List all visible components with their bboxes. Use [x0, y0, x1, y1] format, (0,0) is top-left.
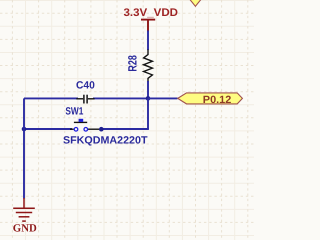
wire: right vertical drop from junction to switch row: [147, 98, 149, 129]
switch SW1 (push button): [70, 119, 99, 131]
ground symbol: [13, 198, 35, 221]
resistor R28: [144, 50, 153, 83]
port P0.12: [178, 93, 243, 106]
svg-text:GND: GND: [13, 223, 37, 235]
svg-text:R28: R28: [125, 55, 139, 72]
wire: junction to port P0.12: [148, 97, 178, 99]
wire: power stem to resistor R28 top: [147, 31, 149, 51]
wire: top horizontal left segment (to capacitor C40): [24, 97, 78, 99]
wire: resistor bottom to junction: [147, 81, 149, 98]
svg-text:SW1: SW1: [65, 106, 83, 118]
wire: switch row right segment: [101, 128, 149, 130]
junction at left wire / switch row: [22, 127, 27, 132]
svg-text:C40: C40: [76, 80, 95, 92]
junction at resistor / top wire: [146, 96, 151, 101]
partial port flag (top edge, cut off): [189, 0, 202, 6]
svg-text:P0.12: P0.12: [203, 94, 232, 106]
svg-text:3.3V_VDD: 3.3V_VDD: [124, 7, 179, 19]
wire: switch row left segment: [24, 128, 72, 130]
svg-text:SFKQDMA2220T: SFKQDMA2220T: [63, 134, 148, 146]
junction at switch right pins: [99, 127, 104, 132]
wire: left vertical (top wire down to ground): [23, 98, 25, 198]
wire: top horizontal right segment (capacitor to junction): [93, 97, 148, 99]
capacitor C40: [76, 95, 94, 104]
power port 3.3V_VDD (bar symbol): [141, 20, 155, 32]
